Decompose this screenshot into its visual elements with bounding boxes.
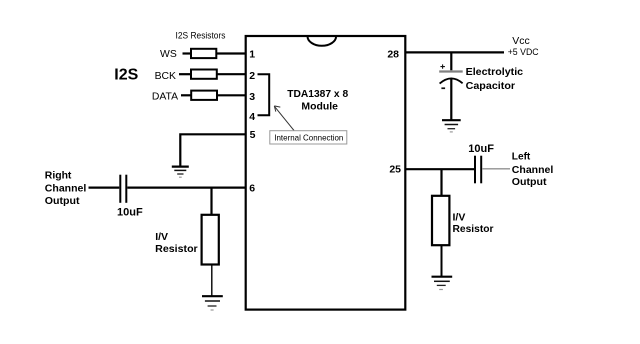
resistor I/V (right) — [432, 196, 449, 245]
svg-text:Channel: Channel — [45, 183, 87, 195]
IC notch — [308, 36, 337, 46]
wire capacitor to pin 6 — [127, 187, 246, 189]
wire junction to I/V resistor (left) — [210, 188, 212, 215]
capacitor C2 electrolytic — [439, 64, 463, 89]
svg-text:DATA: DATA — [152, 92, 178, 103]
svg-text:Right: Right — [45, 170, 72, 182]
svg-text:10uF: 10uF — [468, 143, 494, 155]
resistor BCK (I2S) — [191, 70, 217, 79]
wire WS stub — [183, 52, 192, 54]
svg-text:5: 5 — [250, 129, 256, 141]
svg-text:TDA1387 x 8: TDA1387 x 8 — [287, 88, 348, 100]
wire pin 2 — [217, 73, 246, 75]
resistor WS (I2S) — [191, 49, 216, 58]
svg-text:I2S: I2S — [114, 67, 138, 84]
svg-text:10uF: 10uF — [117, 207, 143, 219]
wire Vcc rail to electrolytic capacitor — [450, 52, 452, 70]
wire pin 25 to capacitor — [406, 168, 475, 170]
svg-text:Output: Output — [45, 195, 80, 207]
wire internal-connection arrow — [274, 106, 294, 131]
svg-text:WS: WS — [160, 49, 177, 60]
svg-text:28: 28 — [387, 48, 399, 60]
callout box Internal Connection — [270, 131, 347, 144]
wire pin 5 to ground — [180, 134, 246, 166]
ground (left I/V resistor) — [202, 296, 223, 310]
op-amp U1 TDA1387 module body — [246, 36, 406, 310]
svg-text:Vcc: Vcc — [512, 35, 530, 47]
resistor DATA (I2S) — [191, 91, 217, 100]
svg-text:Capacitor: Capacitor — [466, 80, 515, 92]
svg-text:Module: Module — [301, 101, 338, 113]
svg-text:Resistor: Resistor — [155, 243, 198, 255]
svg-text:4: 4 — [249, 111, 255, 123]
svg-text:I2S Resistors: I2S Resistors — [176, 30, 226, 40]
svg-text:Output: Output — [512, 176, 547, 188]
svg-text:+5 VDC: +5 VDC — [508, 47, 539, 57]
svg-text:Left: Left — [512, 151, 531, 163]
capacitor C3 10uF (right) — [475, 156, 481, 184]
svg-text:1: 1 — [249, 49, 255, 61]
svg-text:I/V: I/V — [453, 212, 466, 224]
svg-text:25: 25 — [389, 164, 401, 176]
svg-text:6: 6 — [249, 183, 255, 195]
svg-text:3: 3 — [249, 91, 255, 103]
ground (right I/V resistor) — [432, 277, 453, 290]
wire right channel output to capacitor — [89, 187, 120, 189]
svg-text:I/V: I/V — [155, 231, 168, 243]
svg-text:BCK: BCK — [155, 71, 176, 82]
wire capacitor to left channel output — [482, 168, 510, 170]
capacitor C1 10uF (left) — [120, 175, 126, 203]
wire pin 3 — [217, 94, 246, 96]
wire BCK stub — [179, 73, 191, 75]
svg-text:2: 2 — [249, 70, 255, 82]
wire junction to I/V resistor (right) — [440, 169, 442, 196]
svg-text:Electrolytic: Electrolytic — [466, 66, 524, 78]
wire internal bracket pins 2-4 — [258, 74, 270, 115]
wire pin 1 — [216, 52, 246, 54]
ground (pin 5) — [172, 167, 189, 178]
wire resistor to ground (left) — [211, 265, 213, 296]
wire DATA stub — [181, 94, 191, 96]
wire pin 28 to Vcc — [406, 51, 505, 53]
svg-text:Internal Connection: Internal Connection — [274, 132, 343, 142]
wire capacitor to ground — [450, 79, 452, 120]
svg-text:Resistor: Resistor — [453, 223, 494, 235]
resistor I/V (left) — [202, 215, 219, 265]
ground (electrolytic capacitor) — [442, 120, 461, 132]
svg-text:Channel: Channel — [512, 164, 554, 176]
wire resistor to ground (right) — [441, 245, 443, 276]
